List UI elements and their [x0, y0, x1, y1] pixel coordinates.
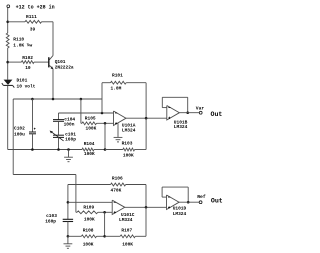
svg-text:LM324: LM324 [173, 211, 187, 217]
svg-text:160p: 160p [65, 137, 76, 143]
svg-text:1.0K ¼w: 1.0K ¼w [13, 43, 32, 49]
svg-text:C102: C102 [14, 125, 25, 131]
svg-text:2N2222a: 2N2222a [55, 64, 74, 70]
svg-text:Out: Out [211, 198, 223, 205]
svg-text:100K: 100K [122, 242, 133, 248]
svg-text:LM324: LM324 [119, 217, 133, 223]
svg-text:100n: 100n [64, 122, 75, 128]
svg-text:470K: 470K [111, 188, 122, 194]
svg-text:Ref: Ref [197, 194, 206, 200]
svg-text:R111: R111 [26, 14, 37, 20]
svg-text:R107: R107 [121, 228, 132, 234]
svg-text:Var: Var [196, 106, 205, 112]
svg-text:39: 39 [30, 26, 36, 32]
svg-text:D101: D101 [17, 77, 28, 83]
svg-text:100u: 100u [14, 132, 25, 138]
svg-text:100K: 100K [84, 217, 95, 223]
svg-text:R105: R105 [85, 115, 96, 121]
svg-text:U101C: U101C [121, 212, 135, 218]
svg-text:Q101: Q101 [55, 59, 66, 65]
svg-text:c103: c103 [46, 213, 57, 219]
svg-text:R110: R110 [13, 37, 24, 43]
svg-text:160p: 160p [45, 219, 56, 225]
svg-text:R106: R106 [112, 176, 123, 182]
svg-text:c104: c104 [64, 117, 75, 123]
svg-text:100K: 100K [84, 151, 95, 157]
svg-text:LM324: LM324 [122, 127, 136, 133]
svg-text:10 volt: 10 volt [17, 83, 36, 89]
svg-text:R102: R102 [22, 55, 33, 61]
svg-text:R109: R109 [83, 204, 94, 210]
svg-text:100K: 100K [123, 152, 134, 158]
svg-text:R108: R108 [83, 228, 94, 234]
svg-text:U101D: U101D [173, 206, 187, 212]
svg-text:1.0M: 1.0M [111, 86, 122, 92]
svg-text:c101: c101 [65, 131, 76, 137]
svg-text:R103: R103 [122, 140, 133, 146]
svg-text:10: 10 [25, 65, 31, 71]
svg-text:R104: R104 [84, 141, 95, 147]
svg-text:100K: 100K [86, 125, 97, 131]
svg-text:100K: 100K [83, 242, 94, 248]
svg-text:LM324: LM324 [174, 124, 188, 130]
svg-text:R101: R101 [112, 72, 123, 78]
svg-text:Out: Out [211, 111, 223, 118]
svg-text:+12 to +28 in: +12 to +28 in [16, 4, 55, 10]
